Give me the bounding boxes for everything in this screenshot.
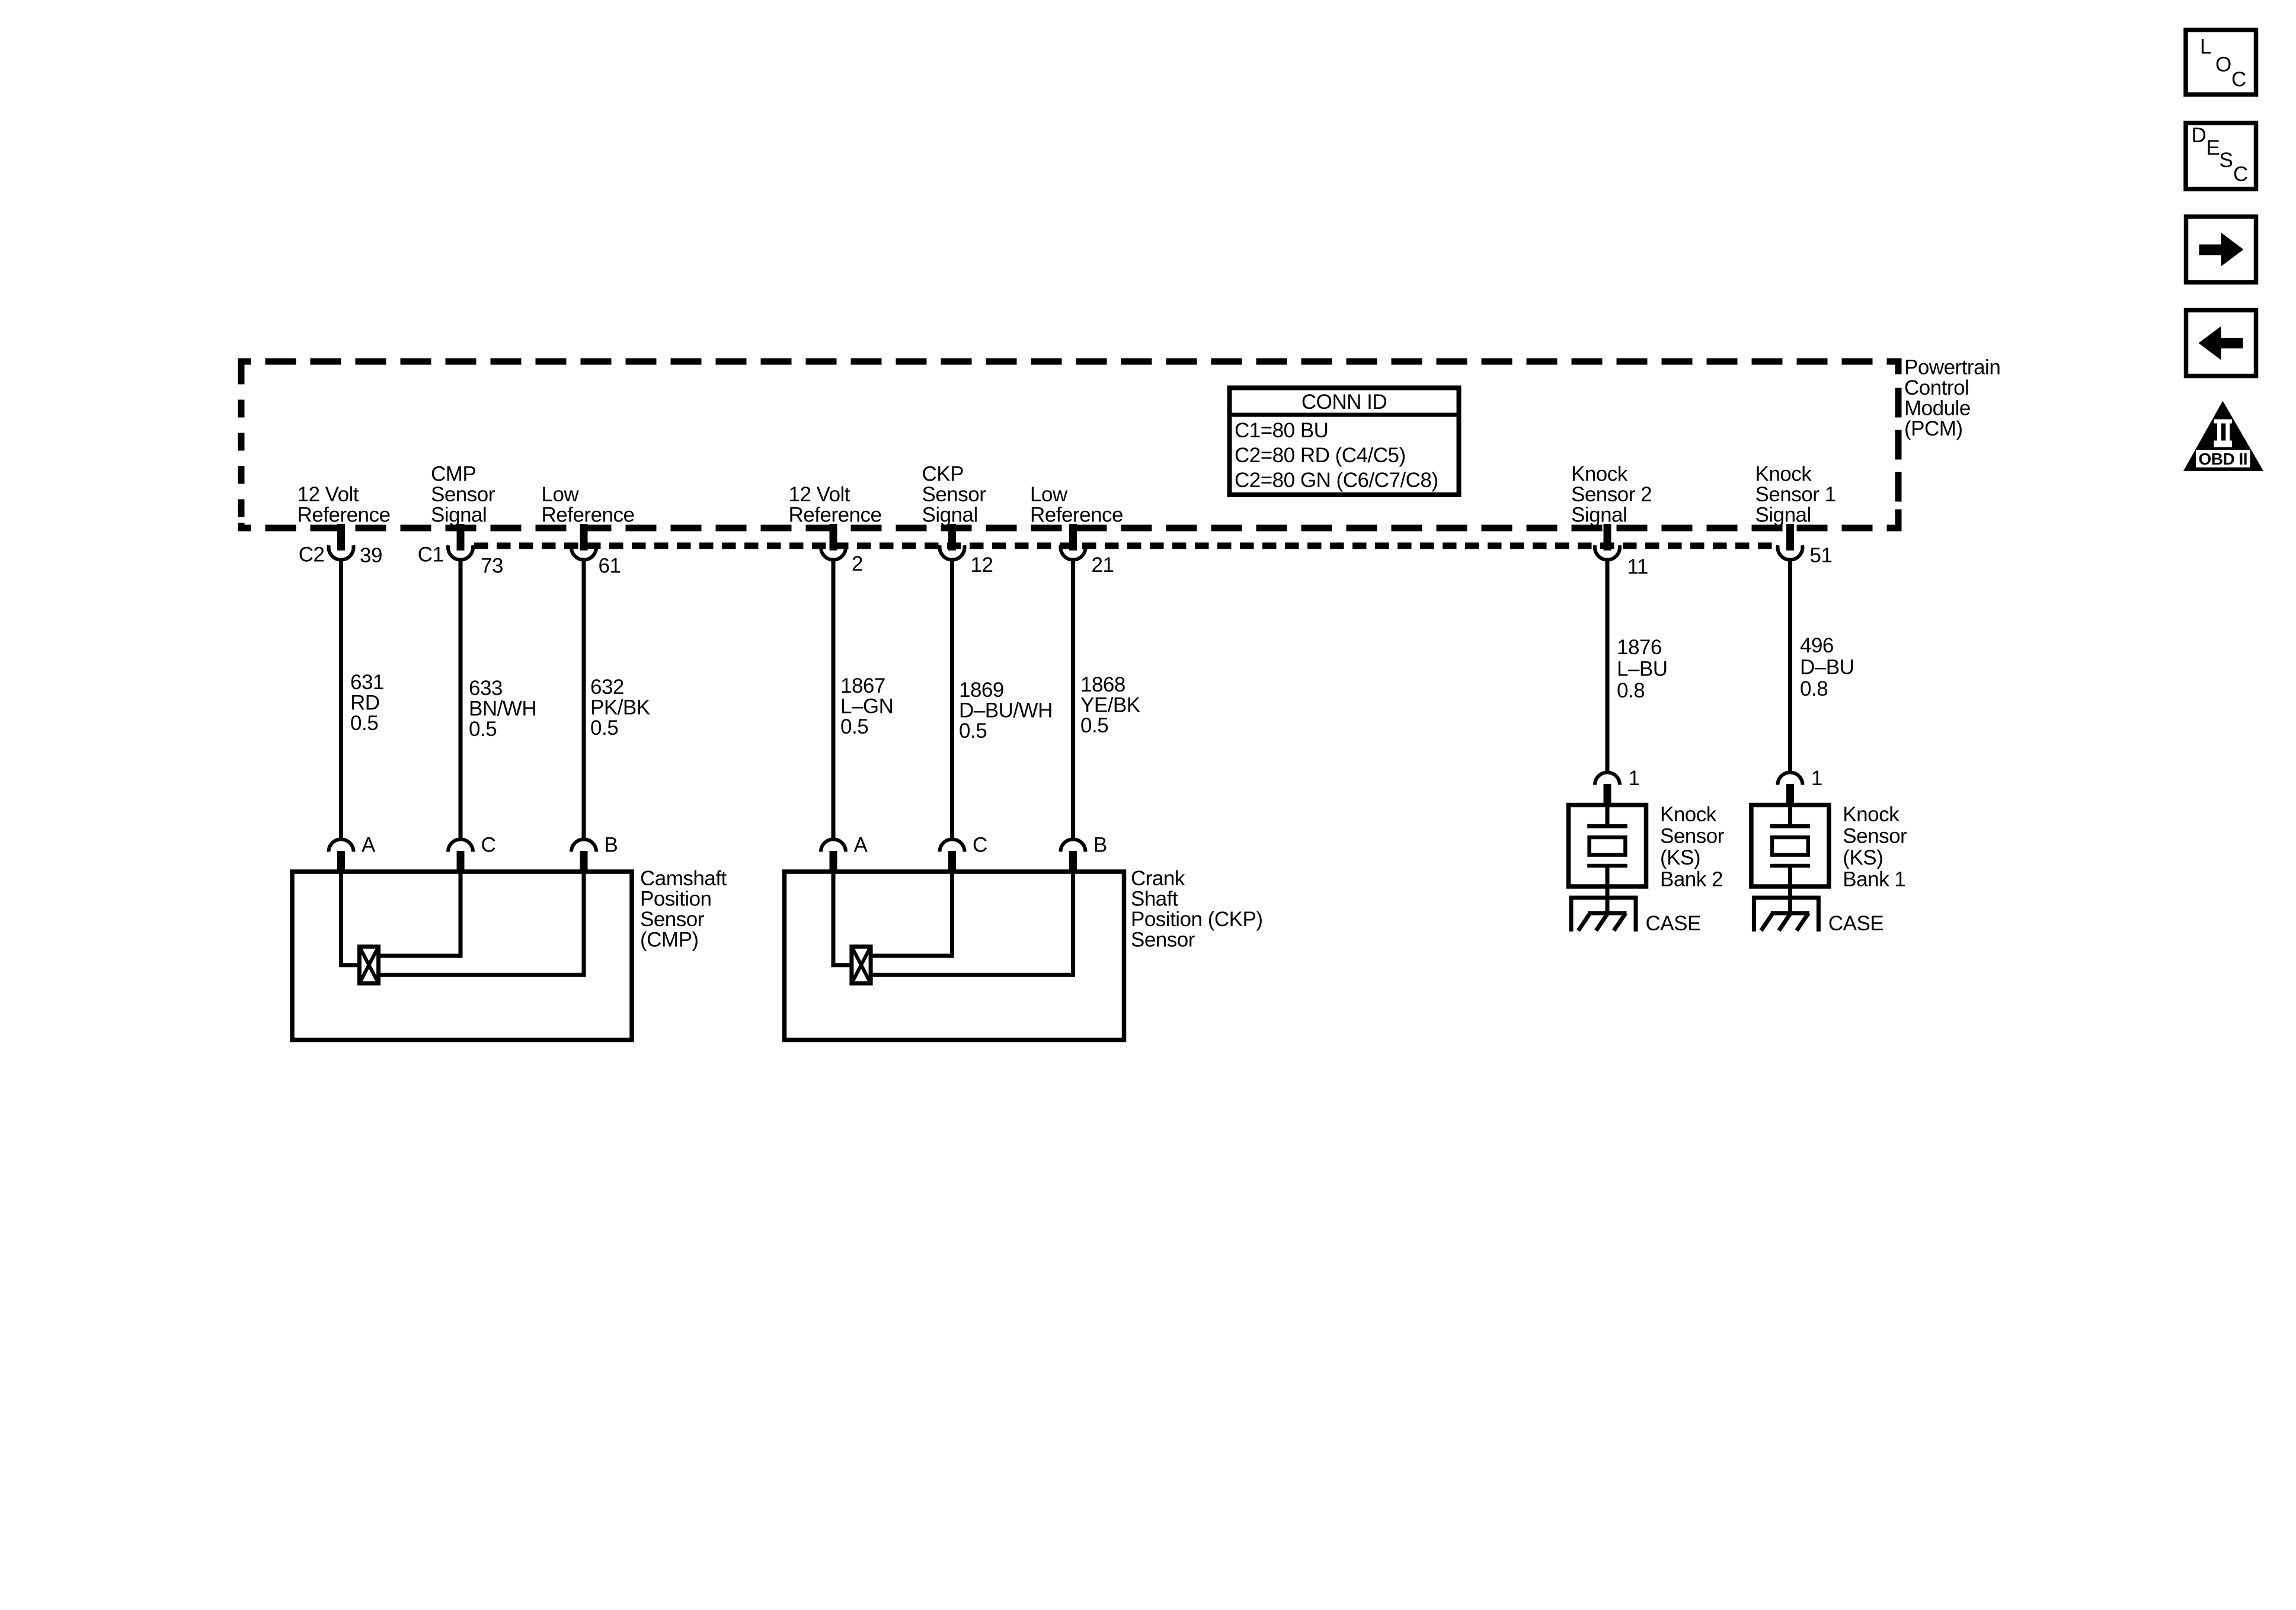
- svg-text:Reference: Reference: [789, 504, 882, 527]
- svg-text:C1: C1: [418, 543, 444, 566]
- svg-text:Knock: Knock: [1571, 463, 1628, 486]
- svg-text:Powertrain: Powertrain: [1904, 356, 2000, 379]
- CKP internal wire from pin B: [1071, 872, 1075, 975]
- svg-text:L: L: [2200, 36, 2211, 59]
- svg-text:51: 51: [1810, 544, 1833, 567]
- DESC icon box: [2186, 123, 2256, 190]
- svg-text:C1=80 BU: C1=80 BU: [1235, 419, 1328, 442]
- svg-text:L–BU: L–BU: [1617, 658, 1668, 681]
- PCM connector C1 pin 21: [1061, 524, 1086, 560]
- svg-text:1: 1: [1629, 767, 1640, 790]
- svg-text:1868: 1868: [1080, 673, 1125, 696]
- svg-text:E: E: [2207, 136, 2220, 159]
- svg-text:Camshaft: Camshaft: [640, 867, 727, 890]
- svg-text:0.8: 0.8: [1800, 677, 1828, 700]
- svg-text:Knock: Knock: [1755, 463, 1812, 486]
- svg-text:D: D: [2192, 124, 2207, 147]
- svg-text:CMP: CMP: [431, 463, 476, 486]
- svg-text:Signal: Signal: [431, 504, 487, 527]
- svg-text:0.8: 0.8: [1617, 679, 1645, 702]
- svg-text:Sensor: Sensor: [431, 483, 495, 506]
- wire 632 PK/BK 0.5: [582, 559, 586, 838]
- svg-text:Sensor: Sensor: [922, 483, 987, 506]
- svg-text:A: A: [362, 834, 376, 857]
- svg-text:39: 39: [360, 544, 382, 567]
- svg-text:D–BU/WH: D–BU/WH: [959, 699, 1053, 722]
- PCM connector C1 pin 51: [1777, 524, 1802, 560]
- svg-text:12: 12: [971, 553, 993, 577]
- net label: Low Reference (CMP, pin 61): [542, 483, 635, 527]
- svg-text:(PCM): (PCM): [1904, 417, 1963, 440]
- svg-text:(KS): (KS): [1843, 846, 1883, 869]
- net label: Knock Sensor 2 Signal (pin 11): [1571, 463, 1652, 527]
- svg-text:Low: Low: [1030, 483, 1068, 506]
- svg-text:1869: 1869: [959, 678, 1004, 702]
- KS Bank 1 case ground: [1754, 886, 1818, 932]
- CKP sensor connector pin A: [821, 839, 846, 872]
- svg-text:Sensor: Sensor: [1843, 825, 1907, 848]
- svg-text:0.5: 0.5: [590, 716, 618, 740]
- wire 1867 L-GN 0.5: [832, 559, 836, 838]
- CKP internal wire from pin A: [832, 872, 836, 965]
- Camshaft Position Sensor (CMP) box: [292, 872, 632, 1040]
- CMP internal wire from pin C: [459, 872, 463, 956]
- svg-text:1: 1: [1811, 767, 1822, 790]
- svg-text:Control: Control: [1904, 376, 1969, 399]
- Crank Shaft Position (CKP) Sensor box: [785, 872, 1124, 1040]
- net label: 12 Volt Reference (CMP, pin 39): [298, 483, 391, 527]
- svg-text:RD: RD: [350, 692, 380, 715]
- PCM connector C1 pin 61: [571, 524, 596, 560]
- net label: 12 Volt Reference (CKP, pin 2): [789, 483, 882, 527]
- svg-text:B: B: [1093, 834, 1107, 857]
- CONN ID table: [1230, 388, 1459, 495]
- svg-text:1876: 1876: [1617, 636, 1662, 659]
- Knock Sensor (KS) Bank 1 box: [1751, 805, 1829, 887]
- svg-text:0.5: 0.5: [1080, 714, 1108, 737]
- svg-text:0.5: 0.5: [350, 712, 378, 735]
- svg-text:Module: Module: [1904, 397, 1971, 420]
- wire 496 D-BU 0.8: [1788, 559, 1792, 772]
- net label: CMP Sensor Signal (pin 73): [431, 463, 495, 527]
- svg-text:L–GN: L–GN: [840, 695, 893, 718]
- net label: Low Reference (CKP, pin 21): [1030, 483, 1123, 527]
- svg-text:Position: Position: [640, 888, 712, 911]
- svg-text:C2: C2: [299, 543, 325, 566]
- Knock Sensor 1 connector pin 1: [1777, 773, 1802, 808]
- PCM connector C2 pin 39: [329, 524, 354, 560]
- wire 1869 D-BU/WH 0.5: [950, 559, 954, 838]
- svg-text:(CMP): (CMP): [640, 929, 699, 952]
- svg-text:O: O: [2215, 53, 2231, 76]
- CMP internal wire from pin A: [339, 872, 343, 965]
- svg-text:Knock: Knock: [1660, 803, 1717, 826]
- svg-text:73: 73: [481, 555, 503, 578]
- svg-text:Reference: Reference: [542, 504, 635, 527]
- svg-text:2: 2: [852, 552, 863, 575]
- CMP sensor connector pin B: [571, 839, 596, 872]
- CKP pickup element: [852, 946, 871, 983]
- svg-text:12 Volt: 12 Volt: [298, 483, 359, 506]
- svg-text:B: B: [605, 834, 618, 857]
- svg-text:0.5: 0.5: [840, 715, 868, 738]
- svg-text:Signal: Signal: [1571, 504, 1627, 527]
- svg-text:21: 21: [1092, 553, 1114, 577]
- Knock Sensor (KS) Bank 2 box: [1569, 805, 1646, 887]
- svg-text:632: 632: [590, 676, 624, 699]
- svg-text:Knock: Knock: [1843, 803, 1900, 826]
- net label: CKP Sensor Signal (pin 12): [922, 463, 987, 527]
- CMP internal wire from pin B: [582, 872, 586, 975]
- svg-text:C2=80 GN (C6/C7/C8): C2=80 GN (C6/C7/C8): [1235, 469, 1438, 492]
- OBD II triangle icon: [2183, 401, 2263, 472]
- svg-text:C: C: [481, 834, 496, 857]
- Powertrain Control Module (PCM) dashed box: [238, 359, 1902, 532]
- C1 connector dotted line: [474, 543, 1777, 549]
- PCM connector C1 pin 73: [448, 524, 473, 560]
- wire 1876 L-BU 0.8: [1606, 559, 1610, 772]
- svg-text:11: 11: [1627, 555, 1648, 578]
- svg-text:631: 631: [350, 671, 384, 694]
- svg-text:Sensor: Sensor: [640, 908, 705, 931]
- svg-text:Bank 2: Bank 2: [1660, 868, 1723, 891]
- svg-text:Low: Low: [542, 483, 580, 506]
- svg-text:Sensor 2: Sensor 2: [1571, 483, 1652, 506]
- PCM connector C1 pin 12: [940, 524, 965, 560]
- KS Bank 2 piezo element: [1587, 807, 1627, 888]
- CKP internal wire from pin C: [950, 872, 954, 956]
- svg-text:CASE: CASE: [1646, 912, 1701, 935]
- wire 1868 YE/BK 0.5: [1071, 559, 1075, 838]
- CMP sensor connector pin A: [329, 839, 354, 872]
- svg-text:C: C: [973, 834, 987, 857]
- svg-text:Sensor: Sensor: [1660, 825, 1725, 848]
- svg-text:Bank 1: Bank 1: [1843, 868, 1905, 891]
- svg-text:496: 496: [1800, 634, 1834, 657]
- svg-text:Sensor 1: Sensor 1: [1755, 483, 1836, 506]
- LOC icon box: [2186, 30, 2256, 95]
- svg-text:YE/BK: YE/BK: [1080, 694, 1140, 717]
- Knock Sensor 2 connector pin 1: [1595, 773, 1620, 808]
- CMP sensor connector pin C: [448, 839, 473, 872]
- svg-text:Shaft: Shaft: [1131, 888, 1178, 911]
- svg-text:BN/WH: BN/WH: [469, 697, 536, 721]
- svg-text:633: 633: [469, 677, 503, 700]
- svg-text:C2=80 RD (C4/C5): C2=80 RD (C4/C5): [1235, 444, 1406, 467]
- back arrow icon box: [2186, 311, 2256, 376]
- svg-text:61: 61: [599, 555, 621, 578]
- svg-text:CASE: CASE: [1828, 912, 1884, 935]
- svg-text:OBD II: OBD II: [2199, 450, 2248, 468]
- svg-text:Crank: Crank: [1131, 867, 1185, 890]
- svg-text:Reference: Reference: [298, 504, 391, 527]
- KS Bank 1 piezo element: [1770, 807, 1811, 888]
- forward arrow icon box: [2186, 217, 2256, 283]
- svg-text:(KS): (KS): [1660, 846, 1700, 869]
- CMP pickup element: [359, 946, 378, 983]
- KS Bank 2 case ground: [1571, 886, 1636, 932]
- svg-text:12 Volt: 12 Volt: [789, 483, 850, 506]
- svg-text:Signal: Signal: [922, 504, 978, 527]
- wire 631 RD 0.5: [339, 559, 343, 838]
- svg-text:CONN ID: CONN ID: [1302, 391, 1387, 414]
- PCM connector C1 pin 11: [1595, 524, 1620, 560]
- svg-text:1867: 1867: [840, 674, 885, 697]
- svg-text:Signal: Signal: [1755, 504, 1811, 527]
- svg-text:CKP: CKP: [922, 463, 964, 486]
- svg-text:C: C: [2231, 68, 2246, 91]
- svg-text:PK/BK: PK/BK: [590, 696, 650, 719]
- svg-text:0.5: 0.5: [959, 719, 987, 742]
- svg-text:S: S: [2220, 149, 2233, 172]
- svg-text:C: C: [2233, 163, 2248, 186]
- svg-text:A: A: [854, 834, 868, 857]
- svg-text:Sensor: Sensor: [1131, 929, 1195, 952]
- svg-text:0.5: 0.5: [469, 718, 497, 741]
- PCM connector C1 pin 2: [821, 524, 846, 560]
- wire 633 BN/WH 0.5: [459, 559, 463, 838]
- CKP sensor connector pin C: [940, 839, 965, 872]
- svg-text:Position (CKP): Position (CKP): [1131, 908, 1263, 931]
- net label: Knock Sensor 1 Signal (pin 51): [1755, 463, 1836, 527]
- svg-text:D–BU: D–BU: [1800, 656, 1854, 679]
- CKP sensor connector pin B: [1061, 839, 1086, 872]
- svg-text:Reference: Reference: [1030, 504, 1123, 527]
